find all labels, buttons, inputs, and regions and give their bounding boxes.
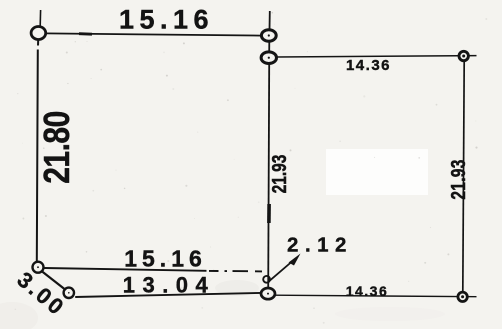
svg-text:2.12: 2.12 bbox=[287, 234, 353, 257]
node A: top-left corner circle bbox=[31, 27, 46, 40]
wire: ink blob on shared vertical edge bbox=[267, 204, 271, 223]
wire: 3.00 diagonal edge (E to F) bbox=[42, 271, 65, 289]
wire: vertical stub above node B bbox=[269, 11, 271, 30]
svg-text:15.16: 15.16 bbox=[119, 5, 214, 35]
node E: bottom-left upper circle bbox=[33, 262, 44, 273]
svg-text:14.36: 14.36 bbox=[346, 57, 391, 74]
wire: thicker ink blob on top edge bbox=[79, 32, 92, 35]
wire: left edge of left parcel (A to E) bbox=[37, 40, 38, 262]
wire: right edge of right parcel (D to H) bbox=[463, 61, 464, 292]
wire: bottom edge of left parcel, dash-dot part bbox=[209, 270, 262, 273]
svg-text:13.04: 13.04 bbox=[123, 273, 216, 298]
wire: bottom edge of left parcel, solid part under 15.16 bbox=[45, 268, 207, 271]
wire: stub above node A bbox=[39, 10, 41, 26]
wire: top edge of right parcel (C to D, extends past D) bbox=[277, 56, 477, 57]
node G: bottom-middle circle bbox=[261, 288, 275, 299]
white correction patch bbox=[326, 149, 428, 195]
node B: upper ellipse at top of shared edge bbox=[261, 30, 276, 41]
wire: top edge of left parcel (A to B) bbox=[46, 33, 262, 35]
faint smudge left of node G bbox=[215, 280, 259, 296]
faint smudge bottom-right area bbox=[335, 307, 445, 321]
svg-text:21.93: 21.93 bbox=[268, 155, 290, 194]
svg-text:14.36: 14.36 bbox=[346, 283, 389, 299]
svg-text:21.93: 21.93 bbox=[447, 159, 469, 199]
wire: short segment between nodes B and C bbox=[268, 41, 270, 52]
faint smudge bottom-left corner bbox=[0, 302, 38, 329]
wire: shared vertical edge from node C down to node G bbox=[268, 64, 269, 289]
wire: 13.04 edge (F to G) bbox=[75, 293, 261, 297]
leader line from 2.12 label to node G bbox=[263, 254, 300, 283]
svg-text:15.16: 15.16 bbox=[124, 246, 207, 272]
wire: bottom edge of right parcel (G to H, extends past H) bbox=[275, 295, 477, 297]
node H: bottom-right ring-and-dot monument bbox=[458, 292, 467, 301]
node C: lower ellipse at start of right parcel top edge bbox=[261, 52, 276, 64]
node D: top-right ring-and-dot monument bbox=[459, 51, 468, 60]
node F: bottom-left lower circle bbox=[64, 288, 74, 298]
svg-text:21.80: 21.80 bbox=[37, 111, 77, 184]
